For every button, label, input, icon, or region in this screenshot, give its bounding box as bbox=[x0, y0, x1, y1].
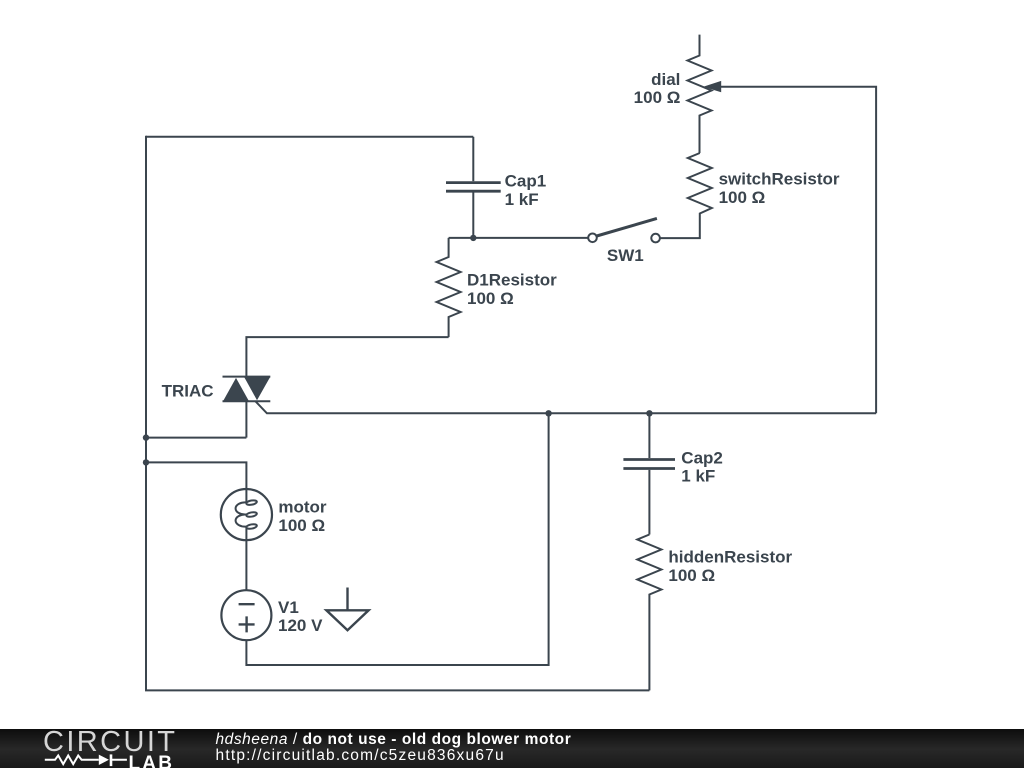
footer url line bbox=[216, 747, 505, 765]
wire V1 bottom to mid vertical bbox=[246, 413, 548, 665]
voltage source V1 minus sign bbox=[239, 603, 255, 605]
switch SW1 blade bbox=[597, 218, 657, 236]
wire top rail bbox=[146, 136, 473, 138]
svg-text:V1: V1 bbox=[278, 598, 299, 617]
wire D1Resistor to TRIAC bbox=[246, 337, 448, 377]
ground symbol bbox=[346, 588, 348, 611]
potentiometer dial wiper wire bbox=[720, 87, 877, 414]
CircuitLab logo LAB bbox=[129, 753, 175, 768]
triac U1 bottom lead bbox=[245, 401, 247, 437]
junction node triac-left rail bbox=[143, 434, 149, 440]
svg-text:1 kF: 1 kF bbox=[681, 467, 715, 486]
potentiometer dial bbox=[688, 35, 712, 153]
capacitor C1 top lead bbox=[472, 137, 474, 181]
svg-text:100 Ω: 100 Ω bbox=[634, 88, 681, 107]
motor M1 coil bbox=[236, 502, 247, 526]
svg-text:100 Ω: 100 Ω bbox=[467, 289, 514, 308]
switch SW1 left contact bbox=[588, 234, 597, 243]
capacitor C1 bottom lead bbox=[472, 192, 474, 238]
svg-text:hiddenResistor: hiddenResistor bbox=[668, 547, 792, 566]
triac U1 gate wire bbox=[256, 401, 877, 413]
CircuitLab logo resistor-diode symbol bbox=[0, 729, 200, 768]
triac U1 bars bbox=[223, 377, 271, 402]
svg-text:1 kF: 1 kF bbox=[505, 190, 539, 209]
svg-text:TRIAC: TRIAC bbox=[162, 382, 214, 401]
footer title line bbox=[216, 731, 572, 749]
svg-text:D1Resistor: D1Resistor bbox=[467, 271, 557, 290]
triac U1 right triangle bbox=[244, 377, 270, 401]
capacitor C2 bottom lead bbox=[648, 470, 650, 535]
wire bottom rail bbox=[145, 689, 649, 691]
svg-text:120 V: 120 V bbox=[278, 616, 323, 635]
junction node motor-left rail bbox=[143, 459, 149, 465]
junction node at C2 bbox=[646, 410, 652, 416]
svg-text:Cap1: Cap1 bbox=[505, 172, 547, 191]
svg-text:motor: motor bbox=[278, 498, 327, 517]
svg-text:Cap2: Cap2 bbox=[681, 449, 723, 468]
switch SW1 right contact bbox=[651, 234, 660, 243]
capacitor C2 top lead bbox=[648, 413, 650, 458]
resistor switchResistor bbox=[660, 153, 712, 238]
svg-text:SW1: SW1 bbox=[607, 246, 644, 265]
junction node at C1 / switch bbox=[470, 235, 476, 241]
voltage source V1 plus sign bbox=[239, 616, 255, 632]
CircuitLab logo CIRCUIT bbox=[43, 726, 177, 759]
junction node at mid vertical bbox=[545, 410, 551, 416]
resistor hiddenResistor bbox=[637, 535, 661, 691]
resistor D1Resistor bbox=[437, 238, 461, 337]
wire left rail bbox=[145, 136, 147, 691]
potentiometer dial wiper arrowhead bbox=[703, 81, 721, 92]
capacitor C2 plates bbox=[623, 460, 675, 469]
capacitor C1 plates bbox=[446, 183, 501, 192]
wire motor branch bbox=[146, 462, 246, 502]
voltage source V1 circle bbox=[221, 590, 271, 640]
wire node rail to switch bbox=[449, 237, 589, 239]
svg-text:100 Ω: 100 Ω bbox=[668, 566, 715, 585]
svg-text:dial: dial bbox=[651, 70, 680, 89]
svg-text:100 Ω: 100 Ω bbox=[278, 516, 325, 535]
svg-text:switchResistor: switchResistor bbox=[719, 169, 840, 188]
wire triac to left rail bbox=[146, 437, 246, 439]
wire motor to V1 bbox=[245, 527, 247, 591]
motor M1 circle bbox=[221, 489, 272, 540]
triac U1 left triangle bbox=[223, 378, 249, 401]
svg-text:100 Ω: 100 Ω bbox=[719, 188, 766, 207]
